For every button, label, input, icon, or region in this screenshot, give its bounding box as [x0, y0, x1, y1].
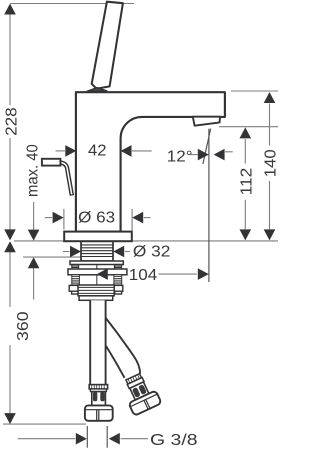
fitting body with slots	[130, 382, 149, 400]
dim 228 line	[9, 14, 11, 106]
top extension line (lever top)	[10, 3, 134, 5]
washer 2	[68, 269, 127, 275]
side lever knob	[42, 159, 61, 166]
104 left arrow	[97, 268, 108, 280]
max40 up arrow	[28, 257, 40, 268]
140 up arrow	[264, 92, 276, 103]
ext line aerator level (112)	[219, 126, 278, 128]
dia63 tails	[45, 217, 52, 219]
counter bottom line	[23, 256, 81, 258]
G38 left arrow	[76, 433, 87, 445]
rod thread hatch left	[72, 277, 122, 284]
washer 1	[70, 261, 123, 265]
112 down arrow	[240, 229, 252, 240]
hex nut	[85, 405, 113, 420]
dia63 ext lines	[63, 209, 65, 230]
svg-text:G 3/8: G 3/8	[150, 432, 198, 449]
body + spout	[76, 92, 225, 231]
water stream lines	[97, 129, 211, 300]
42 right arrow	[121, 145, 132, 157]
ext line spout top (140)	[231, 90, 278, 92]
svg-text:12°: 12°	[167, 148, 193, 165]
max40 down arrow	[28, 230, 40, 241]
lever boot	[87, 88, 107, 92]
dim 140 line	[269, 104, 271, 146]
rod threads	[72, 275, 122, 286]
dim max40 lines	[33, 202, 35, 231]
diagonal hose fitting	[119, 370, 161, 415]
360 down arrow	[4, 413, 16, 424]
lower block	[78, 285, 114, 296]
dia32 left arrow	[70, 246, 81, 258]
vertical hose	[90, 300, 105, 384]
svg-text:Ø 32: Ø 32	[133, 244, 171, 261]
diagonal hose	[104, 317, 140, 378]
svg-text:228: 228	[3, 107, 20, 136]
threaded shank	[81, 241, 113, 261]
228 up arrow	[4, 4, 16, 15]
vertical stream line	[208, 129, 210, 282]
hex nut	[128, 390, 161, 415]
rod nuts	[69, 285, 123, 294]
counter top line	[14, 240, 278, 242]
svg-text:112: 112	[239, 168, 256, 196]
12deg tilted stream line	[203, 129, 211, 164]
svg-text:360: 360	[15, 311, 32, 341]
dim 42 tails	[56, 150, 66, 152]
svg-text:140: 140	[262, 149, 278, 177]
140 down arrow	[264, 229, 276, 240]
side lever arm	[59, 162, 72, 195]
lever handle	[92, 2, 123, 89]
aerator	[193, 117, 220, 126]
228 down arrow	[4, 229, 16, 240]
crimp collar (knurled)	[89, 385, 107, 389]
360 up arrow	[4, 241, 16, 252]
block bottom strip	[79, 296, 113, 301]
hardware centre line	[96, 261, 98, 300]
G38 right arrow	[109, 433, 120, 445]
42 left arrow	[65, 145, 76, 157]
G3/8 tails	[18, 438, 75, 440]
12deg left-pointing arrow	[214, 149, 225, 161]
svg-text:42: 42	[88, 142, 107, 159]
dim 104 line	[109, 273, 128, 275]
dia32 tails	[63, 251, 70, 253]
bottom reference line (hose end)	[3, 423, 86, 425]
dim 360 line	[9, 252, 11, 307]
svg-text:Ø 63: Ø 63	[78, 209, 115, 226]
dim 112 line	[244, 139, 246, 164]
104 right arrow	[198, 268, 209, 280]
12deg leader tails	[190, 154, 198, 156]
dia63 left arrow	[53, 212, 64, 224]
sleeve	[90, 389, 106, 392]
svg-text:max. 40: max. 40	[24, 144, 41, 197]
crimp collar (knurled)	[126, 374, 142, 385]
mounting rods upper stubs	[72, 265, 122, 270]
dia32 right arrow	[113, 246, 124, 258]
sleeve	[127, 377, 144, 388]
112 up arrow	[240, 127, 252, 138]
svg-text:104: 104	[129, 267, 158, 284]
12deg right-pointing arrow	[198, 149, 209, 161]
G3/8 extension lines	[87, 426, 107, 448]
fitting body with slots	[92, 392, 106, 406]
dia63 right arrow	[132, 212, 143, 224]
base flange	[64, 232, 132, 242]
vertical hose fitting	[85, 385, 113, 421]
